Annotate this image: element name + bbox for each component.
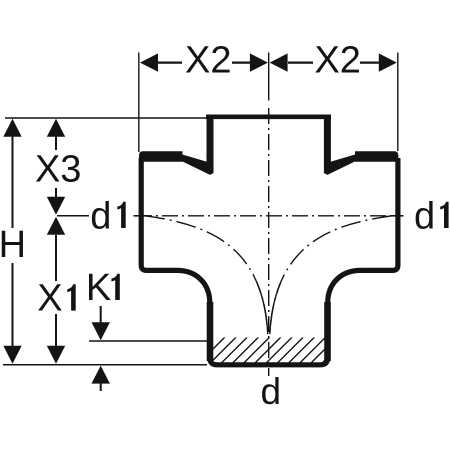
svg-text:X: X — [37, 278, 62, 320]
svg-text:X3: X3 — [35, 149, 81, 191]
flow guide curve left — [145, 216, 268, 334]
wire bottom baseline — [3, 364, 207, 366]
svg-text:d: d — [261, 371, 282, 412]
arrow X2 left — [140, 53, 158, 71]
body outline: right socket bead — [355, 151, 398, 162]
arrow X1 bottom — [47, 346, 65, 364]
arrow H top — [3, 119, 21, 137]
wire K1 stem upper — [100, 306, 102, 323]
wire top extension line center (X2 dim) — [268, 53, 270, 101]
body outline: top branch left wall with shoulder slant wedge — [180, 115, 213, 175]
arrow X3 top — [47, 119, 65, 137]
wire top extension line right (X2 dim) — [397, 53, 399, 152]
arrow X2 right — [379, 53, 397, 71]
wire X2 dimension line segments — [157, 61, 380, 63]
label K1 digit 1 — [111, 274, 119, 300]
body outline: bottom branch right wall reinforcement — [324, 302, 331, 361]
wire H dimension line — [12, 136, 14, 346]
flow guide cusp solid part — [145, 216, 392, 334]
arrow K1 partner up (below baseline) — [92, 366, 110, 384]
body outline: top edge of top branch — [206, 115, 331, 120]
wire top edge extension line — [5, 117, 206, 119]
arrow X3 bottom — [47, 197, 65, 215]
label d1 right digit 1 — [440, 202, 448, 228]
wire X1 dimension line — [55, 235, 57, 346]
centerline vertical (dash-dot) — [268, 108, 270, 376]
body outline: main lower contour — [141, 158, 398, 365]
centerline tick at left wall — [134, 215, 149, 217]
label d1 left digit 1 — [117, 202, 125, 228]
arrow K1 down — [92, 322, 110, 340]
svg-text:H: H — [0, 224, 26, 266]
svg-text:d: d — [414, 195, 435, 237]
centerline tick at right wall — [391, 215, 404, 217]
arrow X2 center-left — [250, 53, 268, 71]
wire K1 line — [89, 340, 207, 342]
body outline: top branch right wall with shoulder slant wedge — [324, 115, 357, 175]
svg-text:X2: X2 — [185, 40, 231, 82]
body outline: left socket bead — [139, 151, 183, 162]
wire K1 stem lower — [100, 383, 102, 391]
svg-text:K: K — [86, 267, 111, 309]
flow guide curve right — [270, 216, 392, 334]
arrow X2 center-right — [270, 53, 288, 71]
arrow X1 top — [47, 217, 65, 235]
wire d1 leader left — [57, 215, 89, 217]
hatching of socket depth — [196, 336, 349, 366]
body outline: bottom branch left wall reinforcement — [207, 302, 214, 361]
wire X3 dimension line — [55, 136, 57, 198]
wire top extension line left (X2 dim) — [138, 53, 140, 153]
svg-text:d: d — [90, 195, 111, 237]
svg-text:X2: X2 — [314, 40, 360, 82]
centerline horizontal d1 (dash-dot) — [136, 215, 400, 217]
label X1 digit 1 — [67, 284, 75, 310]
arrow H bottom — [3, 346, 21, 364]
